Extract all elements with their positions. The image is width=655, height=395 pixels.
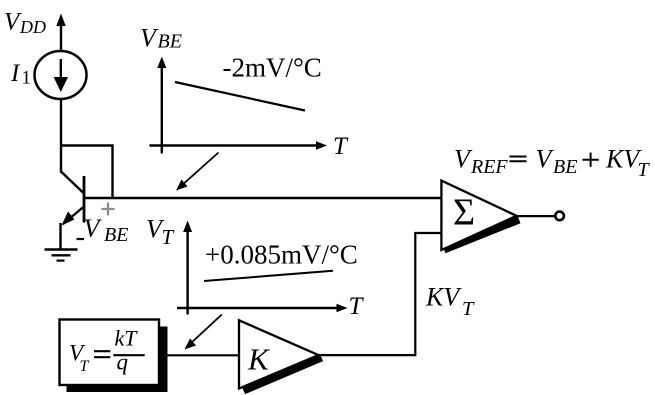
wire block to amplifier K [168,354,240,356]
wire K output to corner [319,354,416,356]
svg-text:KV: KV [425,283,462,312]
graph2 sloped line [204,271,333,281]
current source I1 [35,51,87,99]
node VDD label [4,9,46,38]
svg-text:1: 1 [22,68,32,89]
svg-text:Σ: Σ [453,192,475,234]
svg-text:kT: kT [115,326,139,351]
svg-text:T: T [638,159,651,181]
amplifier K shadow [244,358,322,391]
equation VREF = VBE + KVT [454,145,651,182]
svg-text:T: T [349,293,365,320]
graph2 vertical axis [183,221,192,315]
label VBE at transistor [84,214,129,246]
summer shadow [444,220,519,250]
block VT=kT/q box [60,320,160,386]
graph2 VT axis label [146,215,175,250]
wire diode connection jog (collector to base) [61,146,113,199]
graph1 vertical axis [157,57,166,154]
ground [45,250,78,261]
amplifier K triangle [239,320,319,388]
svg-text:DD: DD [19,17,46,37]
svg-text:REF: REF [470,156,508,178]
label K [247,342,271,377]
block VT=kT/q formula [69,326,145,376]
wire KVT horizontal into summer [414,232,441,234]
minus sign (VBE polarity) [77,238,85,240]
transistor Q1 (diode-connected NPN) [61,172,85,251]
wire summer output [517,215,555,217]
wire base node to summer (long horizontal) [84,197,442,199]
graph2 T axis label [349,293,365,320]
summer triangle [441,181,516,250]
svg-text:BE: BE [104,224,128,246]
svg-text:T: T [462,298,475,320]
wire KVT vertical [414,233,416,356]
block VT=kT/q shadow [67,327,168,393]
plus sign (VBE polarity) [102,203,115,216]
graph2 horizontal axis [177,304,348,313]
graph1 horizontal axis [150,141,328,150]
label I1 [10,60,31,89]
output terminal [555,212,564,221]
svg-text:+0.085mV/°C: +0.085mV/°C [205,240,358,270]
graph1 VBE axis label [140,24,182,53]
svg-text:T: T [162,225,175,249]
svg-text:T: T [80,358,90,375]
graph1 sloped line [175,82,305,111]
arrow graph1 to wire [176,153,219,191]
label KVT [425,283,475,321]
arrow graph2 to wire [185,315,222,350]
graph1 slope label -2mV/degC [223,53,322,83]
svg-text:BE: BE [158,31,182,53]
label sigma [453,192,475,234]
svg-text:K: K [247,342,271,377]
svg-text:T: T [333,133,349,160]
wire VDD up arrow [56,14,65,52]
wire current source to transistor collector [60,99,62,174]
graph2 slope label +0.085mV/degC [205,240,358,270]
svg-text:BE: BE [553,156,577,178]
svg-text:q: q [117,350,129,375]
svg-text:-2mV/°C: -2mV/°C [223,53,322,83]
graph1 T axis label [333,133,349,160]
